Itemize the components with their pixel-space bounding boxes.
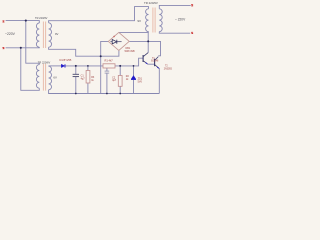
svg-text:4µ7: 4µ7 [81,77,86,80]
junction bottom input branch [20,47,22,49]
capacitor C2 [105,71,110,73]
junction ZD1 top [133,65,135,67]
junction C2 top [106,65,108,67]
transformer TR2 windings [36,65,51,90]
wire TR3 secondary bottom output [159,32,190,34]
junction R3 top [87,65,89,67]
terminal tick output bottom [191,32,193,34]
terminal tick input N [3,47,5,48]
svg-text:6V: 6V [53,75,57,79]
wire TR1 secondary top to TR3 [49,7,149,23]
transformer TR2 core [43,64,45,91]
svg-text:2N3055: 2N3055 [164,68,173,70]
capacitor C1 [73,74,79,76]
diode D1 [61,64,65,67]
svg-text:9V: 9V [137,19,141,23]
wire bridge left corner [101,41,109,93]
svg-text:9V: 9V [55,32,59,36]
wire TR2 secondary bottom to ground rail [49,90,160,94]
wire bridge top to TR3 primary bottom [119,32,148,52]
svg-text:TR 220/9V: TR 220/9V [144,1,158,5]
svg-text:BC548: BC548 [151,61,159,63]
terminal tick output top [191,5,193,7]
junction R2 bottom [119,93,121,95]
wire branch to TR2 primary bottom [21,48,40,91]
wire TR1 secondary bottom to bridge AC [49,47,119,56]
terminal tick input L [3,21,5,22]
svg-text:5V6: 5V6 [138,80,143,83]
svg-text:~220V: ~220V [5,32,16,36]
svg-text:W08 4SB: W08 4SB [125,50,136,53]
wire R2 leads [119,66,121,76]
transformer TR1 core [43,22,45,49]
svg-text:D1 BY255: D1 BY255 [60,58,72,62]
junction top input branch [25,20,27,22]
wire T1 emitter to T2 base [148,63,155,65]
svg-text:TR 220/6V: TR 220/6V [38,60,51,64]
wire C1 bottom lead [75,77,77,94]
wire TR3 primary bottom stub [148,31,150,34]
wire bridge right to collector net [129,41,160,55]
svg-text:R1 4k7: R1 4k7 [105,59,114,63]
svg-text:~ 220V: ~ 220V [175,17,186,21]
junction C1 bottom [75,93,77,95]
wire top input L [6,21,40,23]
transformer TR3 windings [146,9,163,32]
transistor T1 [142,55,144,62]
svg-text:4µ7: 4µ7 [112,79,117,82]
wire C2 leads [106,66,108,71]
svg-text:TR 220/9V: TR 220/9V [35,16,48,20]
zener diode ZD1 [131,76,136,80]
wire TR2 secondary top stub [48,65,50,67]
wire TR3 secondary top output [159,5,190,8]
transformer TR1 windings [36,23,51,47]
transistor T2 [154,59,156,66]
bridge DB1 inner diode [110,36,121,44]
bridge rectifier DB1 diamond [108,32,129,50]
wire C1 top lead [75,66,77,74]
wire Q2 emitter to ground [158,69,160,94]
transformer TR3 core [153,8,155,33]
junction bridge AC left [100,55,102,57]
wire branch to TR2 primary top [26,21,40,65]
wire ZD1 leads [133,66,135,76]
wire bias rail [49,65,62,67]
wire bottom input N [6,46,40,49]
resistor R1 (horizontal) [103,64,115,68]
junction C1 top [75,65,77,67]
junction R2 top [119,65,121,67]
junction C2 bottom [106,93,108,95]
resistor R2 (vertical) [118,76,122,87]
wire R3 leads [87,66,89,71]
resistor R3 (vertical, on bias rail) [86,71,90,84]
junction collector net [147,40,149,42]
